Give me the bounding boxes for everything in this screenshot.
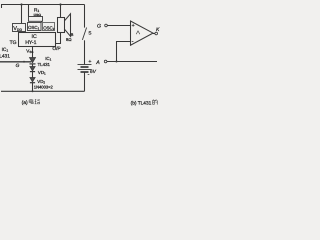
svg-text:L431: L431 <box>0 53 10 59</box>
svg-text:VD1: VD1 <box>38 70 46 76</box>
svg-text:6V: 6V <box>90 69 97 75</box>
svg-text:IC1: IC1 <box>45 56 51 62</box>
svg-text:VSS: VSS <box>26 49 33 55</box>
svg-text:8Ω: 8Ω <box>66 37 71 42</box>
diode VD1 <box>30 67 35 71</box>
pin box OSC1 <box>28 23 42 31</box>
svg-text:B: B <box>71 32 74 37</box>
battery 6V <box>78 64 92 66</box>
svg-text:A: A <box>95 60 100 66</box>
op-amp U1 <box>131 21 154 45</box>
svg-text:HY-1: HY-1 <box>25 40 36 46</box>
shunt regulator IC1 TL431 <box>30 58 36 63</box>
svg-text:S: S <box>88 31 91 36</box>
wire speaker top <box>60 5 62 18</box>
svg-text:VDD: VDD <box>13 26 22 32</box>
wire bottom rail <box>1 90 85 92</box>
svg-text:IC1: IC1 <box>2 47 9 53</box>
svg-text:(a): (a) <box>22 100 28 106</box>
terminal K <box>155 32 158 35</box>
svg-text:O/P: O/P <box>52 46 60 52</box>
speaker B <box>58 18 65 33</box>
svg-text:1N4003×2: 1N4003×2 <box>34 84 54 89</box>
wire right rail down <box>84 5 86 28</box>
wire output K <box>153 33 155 35</box>
wire G to + input <box>107 25 130 27</box>
diode VD2 <box>30 78 35 82</box>
pin box OSC2 <box>43 23 55 31</box>
svg-text:OSC2: OSC2 <box>43 25 55 31</box>
wire A to - input <box>117 42 131 62</box>
svg-text:TL431: TL431 <box>38 62 51 67</box>
node junction A branch <box>116 61 118 63</box>
svg-text:-: - <box>132 39 134 45</box>
wire top rail <box>2 5 85 9</box>
svg-text:+: + <box>132 23 135 29</box>
svg-text:G: G <box>16 63 20 69</box>
resistor R1 <box>28 5 30 17</box>
wire Vss <box>32 47 34 58</box>
svg-text:10kΩ: 10kΩ <box>33 13 41 17</box>
svg-text:+: + <box>88 59 91 65</box>
svg-text:-: - <box>88 72 90 78</box>
wire battery to bottom rail <box>84 72 86 91</box>
wire gate G <box>0 61 31 63</box>
wire Vdd drop <box>21 5 23 24</box>
svg-text:OSC1: OSC1 <box>28 25 40 31</box>
pin box VDD <box>13 24 26 32</box>
wire R1 to OSC2 <box>41 21 43 22</box>
svg-text:K: K <box>156 27 160 33</box>
switch S <box>82 28 86 40</box>
svg-text:(b) TL431: (b) TL431 <box>131 101 152 107</box>
wire A rail <box>107 61 157 63</box>
svg-text:G: G <box>97 24 101 30</box>
svg-text:TG: TG <box>10 40 17 46</box>
wire O/P to speaker <box>56 33 61 44</box>
node junction speaker <box>59 3 61 5</box>
op IC U1 HY-1 box <box>19 33 56 47</box>
node junction Vdd <box>20 3 22 5</box>
